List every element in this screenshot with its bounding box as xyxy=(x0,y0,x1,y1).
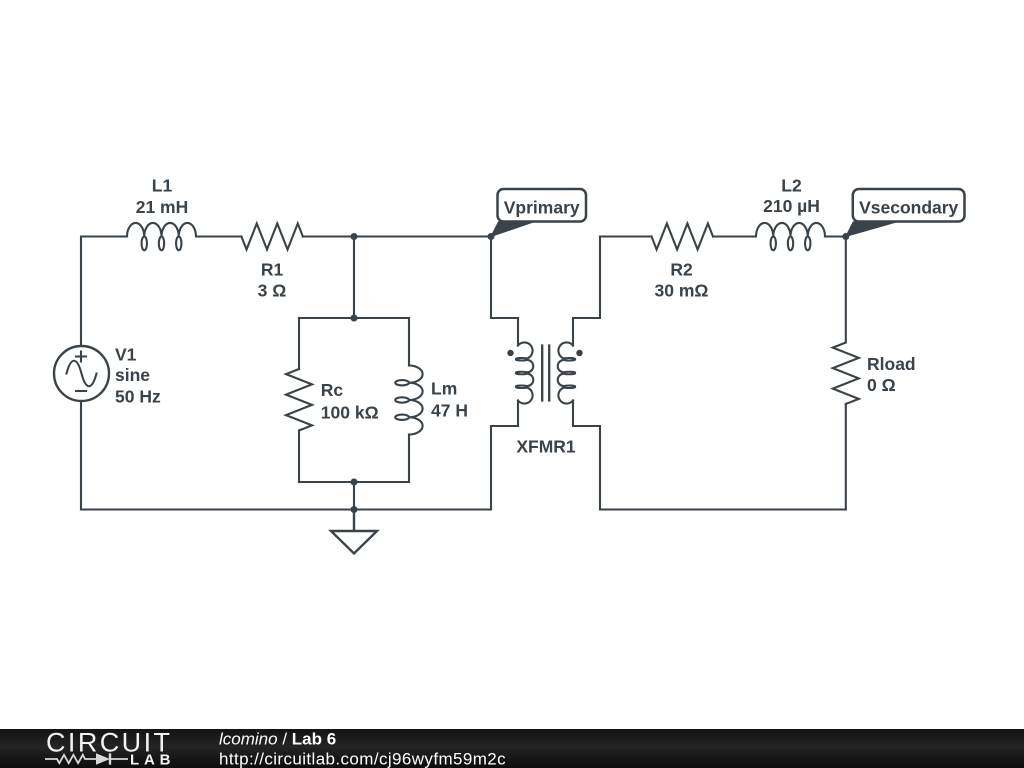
wire secondary top to R2 xyxy=(600,235,652,237)
node ground junction xyxy=(351,506,358,513)
node Vprimary junction xyxy=(488,233,495,240)
transformer XFMR1 core xyxy=(542,346,549,401)
svg-text:210 µH: 210 µH xyxy=(763,196,820,216)
wire V1 top vertical xyxy=(80,237,82,347)
svg-text:V1: V1 xyxy=(115,344,137,364)
wire L2 to Vsecondary node xyxy=(825,235,846,237)
net flag Vprimary xyxy=(491,189,586,237)
voltage source V1 xyxy=(54,346,109,401)
wire parallel box bottom edge xyxy=(299,481,409,483)
wire box right down to Lm xyxy=(408,318,410,366)
inductor Lm xyxy=(395,366,422,435)
net flag Vsecondary xyxy=(846,189,965,237)
svg-text:R2: R2 xyxy=(670,259,693,279)
wire transformer primary bottom to bottom rail xyxy=(491,401,518,510)
svg-text:47 H: 47 H xyxy=(431,401,468,421)
transformer XFMR1 secondary winding xyxy=(558,342,575,403)
svg-text:0 Ω: 0 Ω xyxy=(867,375,896,395)
svg-text:50 Hz: 50 Hz xyxy=(115,386,161,406)
wire box left down to Rc xyxy=(298,318,300,369)
resistor Rc xyxy=(286,369,312,431)
svg-text:21 mH: 21 mH xyxy=(136,197,189,217)
resistor Rload xyxy=(833,343,859,405)
node parallel box bottom xyxy=(351,479,358,486)
node parallel box top xyxy=(351,315,358,322)
resistor R1 xyxy=(241,224,303,250)
svg-text:lcomino / Lab 6: lcomino / Lab 6 xyxy=(219,730,336,749)
wire box bottom to ground node xyxy=(353,482,355,510)
inductor L2 xyxy=(756,223,825,250)
wire Vprimary node down to transformer primary xyxy=(491,237,518,346)
transformer primary phase dot xyxy=(507,350,513,356)
svg-text:sine: sine xyxy=(115,365,150,385)
wire L1 to R1 xyxy=(196,235,241,237)
wire parallel box top edge xyxy=(299,317,409,319)
svg-text:LAB: LAB xyxy=(130,751,173,768)
wire Vsecondary node down to Rload xyxy=(845,237,847,343)
svg-text:L1: L1 xyxy=(152,176,173,196)
node junction on top wire at R1/Rc xyxy=(351,233,358,240)
inductor L1 xyxy=(127,223,196,250)
wire R2 to L2 xyxy=(713,235,756,237)
wire node A down to parallel box xyxy=(353,237,355,319)
svg-text:R1: R1 xyxy=(261,259,284,279)
wire transformer secondary top xyxy=(573,237,600,346)
resistor R2 xyxy=(652,224,714,250)
wire Rload down to bottom rail xyxy=(845,404,847,510)
svg-text:100 kΩ: 100 kΩ xyxy=(321,403,379,423)
wire transformer secondary bottom xyxy=(573,401,600,510)
logo diode triangle xyxy=(96,753,110,764)
svg-text:Lm: Lm xyxy=(431,379,457,399)
svg-text:XFMR1: XFMR1 xyxy=(516,436,576,456)
logo resistor-diode schematic line xyxy=(45,753,128,764)
node Vsecondary junction xyxy=(842,233,849,240)
ground symbol xyxy=(331,510,377,554)
wire bottom primary side xyxy=(81,508,491,510)
svg-text:http://circuitlab.com/cj96wyfm: http://circuitlab.com/cj96wyfm59m2c xyxy=(219,749,506,768)
svg-text:30 mΩ: 30 mΩ xyxy=(655,280,709,300)
wire bottom secondary side xyxy=(600,508,846,510)
svg-text:L2: L2 xyxy=(781,176,802,196)
svg-text:Rload: Rload xyxy=(867,354,916,374)
wire Rc to box bottom xyxy=(298,431,300,483)
wire top-left from V1 to L1 xyxy=(81,235,127,237)
wire R1 to Vprimary node through node A xyxy=(303,235,491,237)
svg-text:Rc: Rc xyxy=(321,380,344,400)
wire V1 bottom vertical xyxy=(80,401,82,510)
svg-text:3 Ω: 3 Ω xyxy=(258,280,287,300)
transformer XFMR1 primary winding xyxy=(516,342,533,403)
svg-text:Vprimary: Vprimary xyxy=(504,198,580,218)
wire Lm to box bottom xyxy=(408,435,410,483)
svg-text:Vsecondary: Vsecondary xyxy=(859,198,958,218)
transformer secondary phase dot xyxy=(576,350,582,356)
